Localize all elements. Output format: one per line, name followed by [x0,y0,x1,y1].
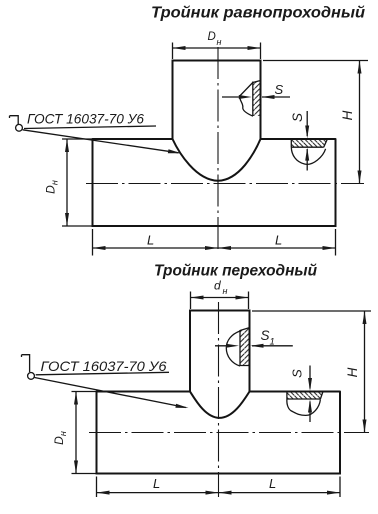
vertical centerline (fig1) [217,47,219,253]
dimension S of run wall (fig2) [290,366,313,423]
svg-text:Тройник равнопроходный: Тройник равнопроходный [151,5,365,22]
dimension L right (fig2) [219,476,341,495]
dimension S1 of branch wall (fig2) [215,328,293,348]
bell saddle curve (fig2) [190,392,250,418]
dimension L left (fig1) [93,229,336,256]
svg-text:L: L [269,476,276,491]
svg-text:S: S [261,328,270,343]
dimension dн top (fig2) [191,279,249,310]
svg-text:Тройник переходный: Тройник переходный [154,263,318,280]
weld callout ГОСТ 16037-70 У6 (fig1) [10,111,182,154]
weld detail on branch wall S (fig1) [240,81,261,117]
vertical centerline (fig2) [218,302,220,497]
dimension S of branch wall (fig1) [222,82,290,99]
dimension Dн left (fig1) [44,139,93,226]
svg-text:1: 1 [270,337,275,348]
dimension L right (fig1) [218,233,336,251]
svg-text:S: S [290,369,305,378]
svg-text:H: H [340,110,355,120]
svg-text:н: н [223,286,228,296]
run pipe outline (fig1) [93,139,336,226]
dimension Dн top (fig1) [173,31,261,59]
dimension Dн left (fig2) [52,392,97,474]
weld detail on run wall S (fig1) [291,139,327,164]
svg-text:ГОСТ 16037-70 У6: ГОСТ 16037-70 У6 [41,358,167,374]
dimension H (fig2) [252,311,371,433]
svg-text:d: d [214,279,221,293]
svg-text:ГОСТ 16037-70 У6: ГОСТ 16037-70 У6 [27,111,144,127]
bell saddle curve (fig1) [173,139,261,181]
svg-text:L: L [153,476,160,491]
svg-text:D: D [208,31,216,43]
weld detail on run wall S (fig2) [287,392,323,416]
horizontal centerline (fig2) [89,432,369,434]
branch pipe outline (fig2) [190,311,250,392]
svg-text:H: H [345,367,360,377]
svg-text:S: S [275,82,284,97]
weld detail on branch wall S1 (fig2) [226,328,249,366]
svg-text:Dн: Dн [44,180,60,194]
dimension H (fig1) [263,61,368,184]
dimension S of run wall (fig1) [290,111,309,171]
weld callout ГОСТ 16037-70 У6 (fig2) [22,355,189,408]
dimension L left (fig2) [97,476,341,497]
svg-text:L: L [275,233,282,248]
run pipe outline (fig2) [97,392,341,474]
svg-text:S: S [290,113,305,122]
horizontal centerline (fig1) [86,183,364,185]
svg-text:н: н [217,37,222,47]
svg-text:Dн: Dн [52,431,68,445]
svg-text:L: L [147,233,154,248]
branch pipe outline (fig1) [173,61,261,140]
